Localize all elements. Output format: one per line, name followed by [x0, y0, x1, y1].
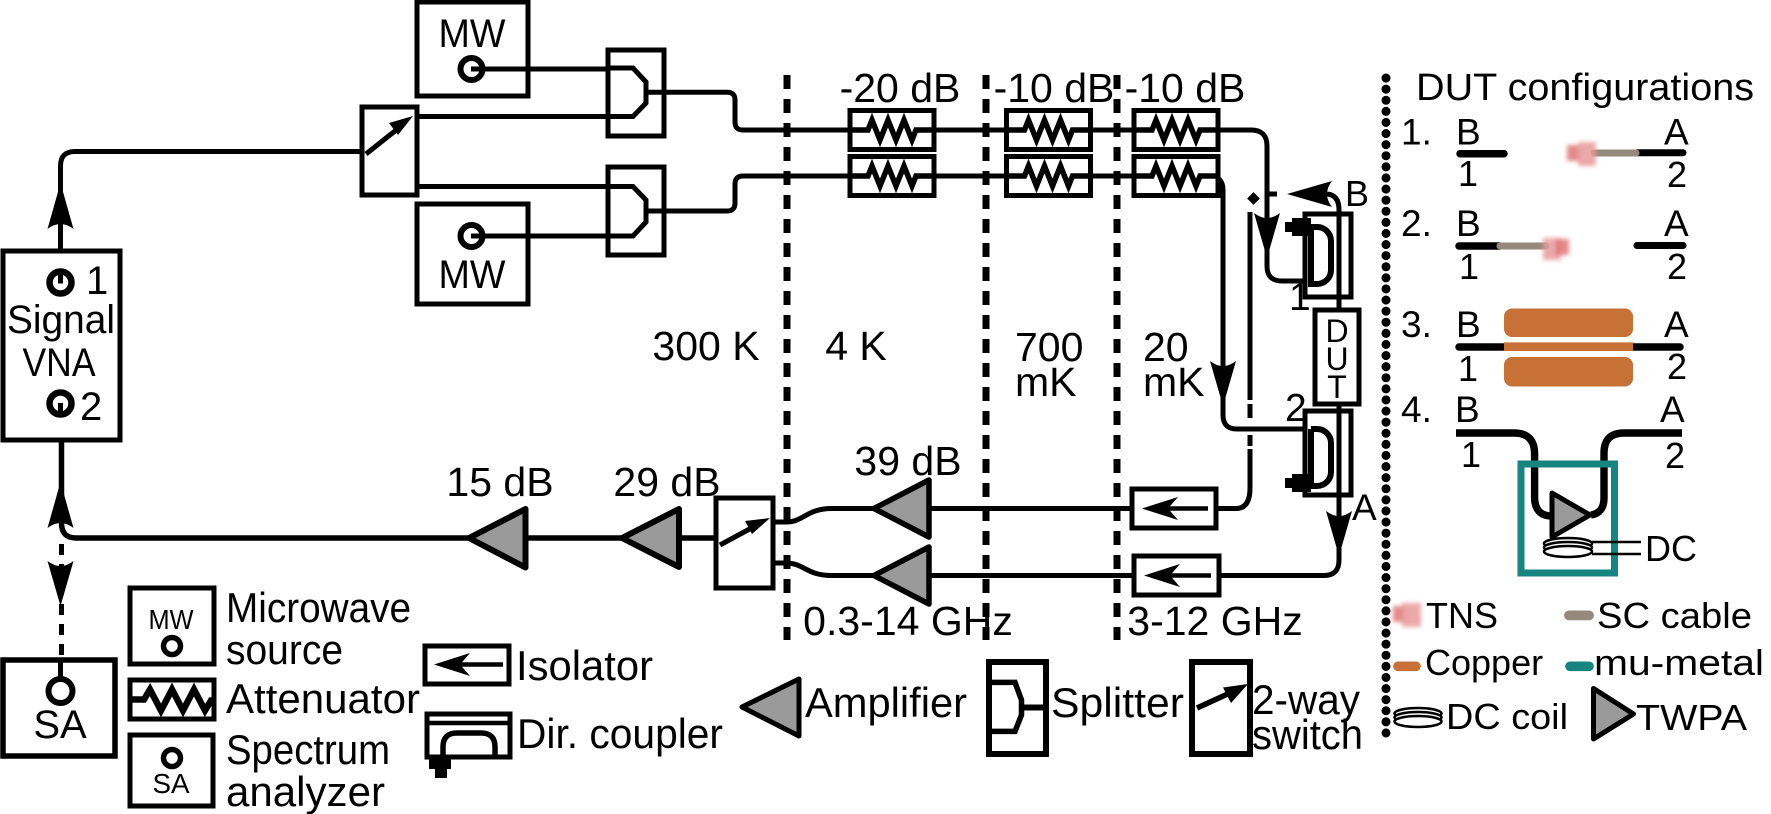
- svg-text:Dir. coupler: Dir. coupler: [517, 710, 723, 757]
- arrow down on row1 wire: [1254, 213, 1280, 258]
- svg-text:TNS: TNS: [1426, 595, 1498, 636]
- svg-text:DC: DC: [1645, 528, 1697, 569]
- svg-text:VNA: VNA: [23, 341, 96, 385]
- amplifier 29dB: [622, 509, 679, 567]
- attenuator A2 -20dB row2: [850, 157, 934, 196]
- svg-text:DUT configurations: DUT configurations: [1416, 67, 1754, 109]
- dashed stage line 700mK/20mK: [1114, 75, 1121, 640]
- svg-text:B: B: [1455, 389, 1480, 430]
- legend dir coupler: [427, 714, 510, 778]
- legend 2-way switch: [1192, 662, 1250, 754]
- VNA port 1: [50, 259, 109, 303]
- attenuator A6 -10dB row2: [1134, 157, 1218, 196]
- amplifier 39dB row1: [874, 480, 929, 537]
- wire row2 splitter2 to coupler2: [664, 176, 1311, 429]
- svg-text:1.: 1.: [1401, 112, 1432, 153]
- wire 29dB to 15dB: [525, 535, 622, 541]
- box MW source 1: [417, 2, 528, 96]
- config4 TWPA triangle: [1552, 493, 1590, 537]
- legend splitter: [989, 662, 1046, 754]
- config4 wire A to TWPA: [1591, 433, 1682, 515]
- label 700 mK: [1015, 324, 1083, 405]
- wire amp1 to switch S2: [773, 509, 874, 523]
- box DUT: [1315, 310, 1359, 405]
- svg-text:Copper: Copper: [1425, 642, 1543, 683]
- config1 SC cable: [1594, 150, 1636, 157]
- config4 wire B to TWPA: [1456, 433, 1552, 516]
- svg-text:MW: MW: [149, 604, 195, 635]
- svg-text:mu-metal: mu-metal: [1594, 642, 1764, 683]
- legend MW source box: [130, 588, 214, 664]
- 2-way switch S1: [362, 107, 417, 195]
- svg-text:3-12 GHz: 3-12 GHz: [1127, 598, 1302, 644]
- config1 TNS: [1567, 142, 1596, 166]
- dash-dot diamond dot: [1247, 192, 1260, 205]
- svg-text:0.3-14 GHz: 0.3-14 GHz: [803, 598, 1013, 644]
- wire switch to splitter1: [417, 114, 608, 119]
- svg-text:Microwave: Microwave: [226, 584, 411, 631]
- arrow up into VNA port2: [48, 482, 74, 528]
- wire VNA port2 from amplifier chain: [62, 404, 470, 538]
- svg-text:A: A: [1664, 112, 1689, 153]
- svg-text:T: T: [1327, 369, 1347, 405]
- svg-text:1: 1: [1461, 434, 1481, 475]
- legend Copper: [1398, 661, 1416, 671]
- config 2: [1401, 203, 1689, 287]
- svg-text:1: 1: [1458, 153, 1478, 194]
- wire row1 splitter1 to coupler1: [664, 92, 1311, 281]
- wire MW1 to splitter: [472, 67, 609, 72]
- svg-text:B: B: [1456, 112, 1481, 153]
- attenuator A4 -10dB row2: [1007, 157, 1091, 196]
- box Signal VNA: [3, 251, 120, 440]
- svg-text:B: B: [1456, 203, 1481, 244]
- label 20 mK: [1143, 324, 1205, 405]
- legend isolator: [425, 646, 509, 684]
- isolator I2: [1134, 556, 1219, 595]
- svg-text:mK: mK: [1143, 359, 1205, 405]
- box MW source 2: [417, 204, 528, 304]
- config 4: [1401, 389, 1685, 476]
- svg-text:Isolator: Isolator: [516, 642, 653, 689]
- svg-text:Attenuator: Attenuator: [226, 675, 420, 722]
- legend SA box: [130, 735, 213, 806]
- svg-text:2: 2: [1667, 246, 1687, 287]
- svg-text:mK: mK: [1015, 359, 1077, 405]
- dashed wire to spectrum analyzer SA: [59, 544, 64, 672]
- wire switch to splitter2: [417, 184, 608, 189]
- directional coupler DC1: [1285, 214, 1351, 297]
- svg-text:-20 dB: -20 dB: [840, 65, 961, 111]
- svg-text:2: 2: [1665, 435, 1685, 476]
- svg-text:source: source: [226, 626, 343, 673]
- config4 DC coil: [1544, 538, 1592, 557]
- svg-text:SA: SA: [153, 768, 190, 799]
- amplifier 15dB: [469, 509, 526, 568]
- config 3: [1401, 304, 1689, 389]
- svg-text:2: 2: [80, 385, 102, 429]
- attenuator A5 -10dB row1: [1134, 111, 1218, 150]
- svg-text:A: A: [1660, 389, 1685, 430]
- svg-text:switch: switch: [1252, 711, 1363, 758]
- svg-text:DC coil: DC coil: [1446, 696, 1568, 737]
- legend SC cable: [1569, 611, 1589, 621]
- dashed stage line 4K/700mK: [983, 75, 990, 640]
- svg-text:3.: 3.: [1401, 304, 1432, 345]
- dotted separator line: [1382, 78, 1391, 742]
- amplifier 39dB row2: [874, 547, 929, 604]
- svg-text:B: B: [1345, 173, 1369, 214]
- svg-text:A: A: [1352, 487, 1377, 528]
- svg-text:1: 1: [1458, 348, 1478, 389]
- isolator I1: [1132, 489, 1216, 528]
- arrow down at A: [1326, 511, 1352, 556]
- legend text Microwave source: [226, 584, 411, 673]
- splitter U1: [608, 50, 664, 136]
- svg-text:SA: SA: [33, 703, 87, 747]
- svg-text:SC cable: SC cable: [1597, 595, 1752, 636]
- legend amplifier: [742, 679, 799, 736]
- VNA port 2: [50, 385, 103, 429]
- svg-text:2: 2: [1667, 154, 1687, 195]
- legend text 2-way switch: [1252, 676, 1363, 758]
- wire MW2 to splitter: [472, 234, 609, 239]
- legend TWPA: [1594, 689, 1634, 740]
- svg-text:-10 dB: -10 dB: [1125, 65, 1246, 111]
- legend DC coil: [1395, 708, 1442, 727]
- wire VNA port1 to switch S1: [61, 152, 363, 283]
- svg-text:A: A: [1664, 203, 1689, 244]
- main line B to A through couplers and DUT: [1219, 194, 1339, 576]
- svg-text:1: 1: [86, 259, 108, 303]
- svg-text:-10 dB: -10 dB: [994, 65, 1115, 111]
- svg-text:300 K: 300 K: [652, 323, 759, 369]
- attenuator A3 -10dB row1: [1007, 111, 1091, 150]
- svg-text:analyzer: analyzer: [226, 768, 385, 814]
- svg-text:TWPA: TWPA: [1636, 697, 1747, 738]
- dashed stage line 300K/4K: [784, 75, 791, 640]
- svg-text:4.: 4.: [1401, 389, 1432, 430]
- 2-way switch S2: [716, 498, 773, 588]
- legend attenuator box: [130, 680, 214, 719]
- splitter U2: [608, 167, 664, 255]
- svg-text:Amplifier: Amplifier: [805, 679, 967, 726]
- legend TNS: [1393, 603, 1421, 627]
- svg-text:2: 2: [1667, 346, 1687, 387]
- svg-text:15 dB: 15 dB: [446, 459, 553, 505]
- dash-dot return path B to isolator1: [1216, 194, 1277, 509]
- wire switch S2 to amp 29dB: [679, 535, 716, 541]
- svg-text:B: B: [1456, 304, 1481, 345]
- legend text Spectrum analyzer: [226, 726, 390, 814]
- svg-text:Signal: Signal: [7, 298, 115, 342]
- svg-text:MW: MW: [439, 12, 506, 56]
- config 1: [1401, 112, 1689, 196]
- config2 SC cable: [1500, 243, 1546, 250]
- svg-text:39 dB: 39 dB: [854, 438, 961, 484]
- svg-text:MW: MW: [439, 253, 506, 297]
- config4 DC lines: [1592, 542, 1641, 554]
- svg-text:Splitter: Splitter: [1051, 679, 1184, 726]
- wire isolator2 left to amp2: [929, 573, 1134, 578]
- wire isolator1 left to amp1: [929, 506, 1132, 511]
- svg-text:1: 1: [1459, 246, 1479, 287]
- arrow left at B: [1287, 181, 1332, 207]
- arrow down to SA: [48, 561, 74, 606]
- legend mu-metal: [1570, 661, 1589, 671]
- config4 mu-metal box: [1521, 464, 1615, 573]
- box SA spectrum analyzer: [3, 660, 115, 756]
- directional coupler DC2: [1285, 411, 1351, 495]
- svg-text:1: 1: [1289, 276, 1311, 319]
- svg-text:2.: 2.: [1401, 203, 1432, 244]
- svg-text:29 dB: 29 dB: [613, 459, 720, 505]
- arrow up into switch path: [48, 183, 74, 229]
- svg-text:A: A: [1664, 304, 1689, 345]
- attenuator A1 -20dB row1: [850, 111, 934, 150]
- config2 TNS: [1543, 238, 1569, 260]
- wire amp2 to switch S2: [773, 563, 874, 576]
- svg-text:Spectrum: Spectrum: [226, 726, 390, 773]
- arrow down on row2 wire: [1210, 361, 1236, 406]
- svg-text:4 K: 4 K: [825, 323, 887, 369]
